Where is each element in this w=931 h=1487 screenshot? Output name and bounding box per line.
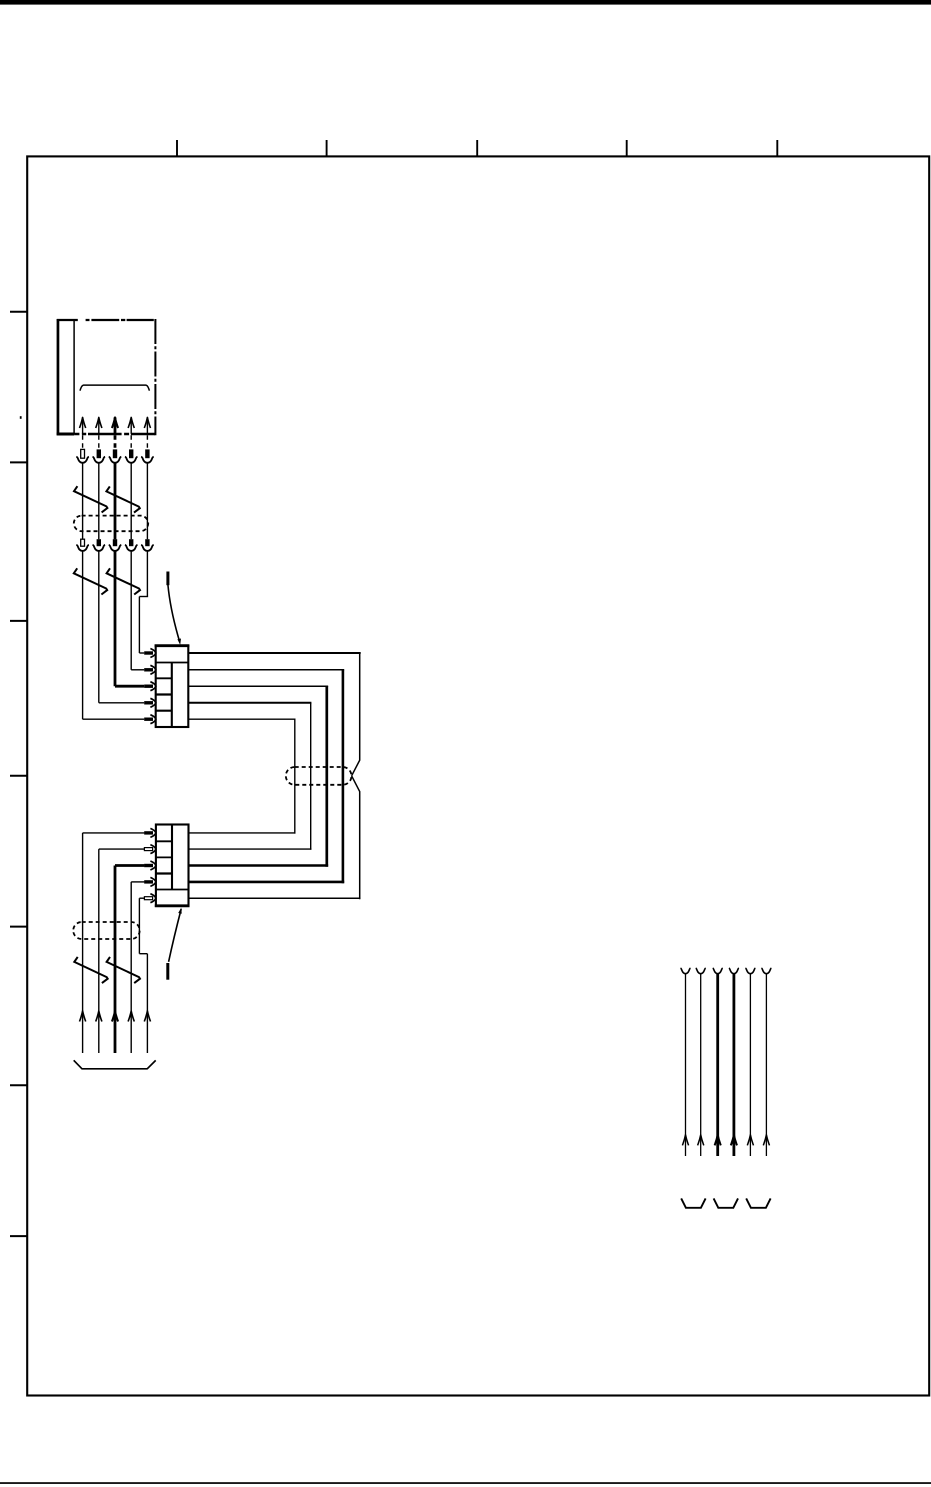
wire 5 into CN-A pin1 bbox=[139, 652, 144, 654]
CN-B pin symbol 5 (hollow) bbox=[144, 897, 152, 900]
twisted-pair symbol row1 (wires 1-2) bbox=[74, 486, 107, 512]
twisted-pair symbol row2 (wires 1-2) bbox=[74, 568, 107, 594]
wire 4 drop bbox=[130, 551, 132, 670]
connector pin bar row1 wire 4 bbox=[129, 449, 133, 458]
loop wire A3 top run bbox=[188, 685, 328, 687]
lead 4 wire bbox=[733, 974, 736, 1156]
loop wire A5 bottom run bbox=[188, 832, 295, 834]
lower harness arrow wire 5 bbox=[144, 1011, 150, 1022]
CN-A pin symbol 4 bbox=[144, 701, 153, 704]
CN-A top edge emphasis bbox=[155, 644, 190, 647]
loop wire A3 bottom run bbox=[188, 864, 328, 867]
loop wire A1 vertical lower bbox=[352, 776, 360, 899]
CN-B vertical divider bbox=[171, 825, 173, 890]
unit box pin arrow 2 bbox=[96, 417, 102, 428]
stray speck bbox=[20, 416, 22, 419]
harness wire 2 dashed lead bbox=[98, 435, 100, 449]
CN-A callout leader tail bbox=[166, 572, 169, 586]
unit box bottom edge dash-dot bbox=[74, 433, 156, 436]
lower harness arrow wire 4 bbox=[128, 1011, 134, 1022]
frame left tick 2 bbox=[10, 461, 27, 463]
CN-A cell divider b bbox=[156, 693, 172, 695]
wire B1 run from CN-B pin1 bbox=[83, 832, 145, 834]
CN-B pin symbol 2 (hollow) bbox=[144, 848, 152, 851]
CN-B callout leader tail bbox=[166, 963, 169, 980]
lower harness arrow wire 1 bbox=[80, 1011, 86, 1022]
wire 1 into CN-A pin5 bbox=[83, 718, 145, 720]
unit box pin stem 1 bbox=[82, 417, 84, 433]
frame left tick 1 bbox=[10, 311, 27, 313]
unit box top edge dash-dot bbox=[57, 319, 157, 321]
CN-A pin symbol 3 bbox=[144, 685, 153, 688]
unit box pin arrow 3 bbox=[112, 417, 118, 428]
lead 2 wire bbox=[700, 974, 702, 1156]
harness wire 3 dashed lead bbox=[114, 435, 117, 449]
lead pair 5-6 terminal tray bbox=[746, 1198, 770, 1207]
frame top tick 2 bbox=[326, 140, 328, 156]
lead 2 arrow bbox=[698, 1135, 704, 1146]
unit box pin arrow 4 bbox=[128, 417, 134, 428]
loop wire A2 vertical bbox=[342, 670, 345, 883]
unit box internal bracket bbox=[80, 385, 149, 391]
lead 1 top cup bbox=[681, 968, 691, 974]
lead 4 top cup bbox=[729, 968, 739, 974]
unit box pin stem 2 bbox=[98, 417, 100, 433]
page footer rule bbox=[0, 1482, 931, 1484]
connector pin bar row1 wire 3 bbox=[113, 449, 117, 458]
wire B2 drop bbox=[98, 849, 100, 1053]
cable clamp band 1 bbox=[74, 516, 148, 532]
CN-A divider under pin1 row bbox=[156, 662, 189, 664]
CN-A pin symbol 5 bbox=[144, 718, 153, 721]
frame top tick 5 bbox=[776, 140, 778, 156]
loop wire A3 vertical bbox=[325, 686, 328, 867]
CN-A cell divider c bbox=[156, 710, 172, 712]
frame top tick 4 bbox=[626, 140, 628, 156]
loop wire A1 top run bbox=[188, 652, 360, 654]
CN-B pin symbol 3 bbox=[144, 864, 153, 867]
connector cup row1 wire 5 bbox=[141, 457, 154, 463]
CN-B cell divider b bbox=[156, 856, 172, 858]
frame top tick 3 bbox=[476, 140, 478, 156]
connector cup row2 wire 1 bbox=[76, 545, 89, 551]
lead 5 wire bbox=[749, 974, 751, 1156]
connector pin bar row2 wire 5 bbox=[145, 539, 149, 546]
loop wire A5 top run bbox=[188, 718, 295, 720]
connector pin bar row1 wire 1 (hollow) bbox=[81, 449, 85, 458]
frame left tick 5 bbox=[10, 926, 27, 928]
harness group bracket (underbrace) bbox=[74, 1060, 156, 1069]
harness wire 5 mid segment bbox=[146, 463, 148, 539]
frame left tick 4 bbox=[10, 775, 27, 777]
harness wire 2 mid segment bbox=[98, 463, 100, 539]
lead 1 arrow bbox=[682, 1135, 688, 1146]
connector pin bar row1 wire 5 bbox=[145, 449, 149, 458]
lead 4 arrow bbox=[731, 1135, 737, 1146]
lead 5 arrow bbox=[747, 1135, 753, 1146]
cable clamp band 3 bbox=[73, 922, 140, 939]
CN-B callout leader line bbox=[169, 909, 182, 962]
harness wire 3 mid segment bbox=[114, 463, 117, 539]
wire B4 drop bbox=[130, 882, 132, 1053]
connector cup row2 wire 3 bbox=[109, 545, 122, 551]
connector cup row2 wire 5 bbox=[141, 545, 154, 551]
wire 5 jog horizontal bbox=[139, 596, 148, 598]
connector CN-A outline bbox=[156, 646, 189, 727]
connector pin bar row2 wire 4 bbox=[129, 539, 133, 546]
wire 4 into CN-A pin2 bbox=[131, 669, 144, 671]
lead 6 arrow bbox=[763, 1135, 769, 1146]
unit box bottom edge solid start bbox=[57, 433, 75, 436]
wire B4 run from CN-B pin4 bbox=[131, 881, 144, 883]
CN-A callout arrowhead bbox=[177, 639, 181, 645]
CN-B cell divider a bbox=[156, 840, 172, 842]
unit box pin arrow 5 bbox=[144, 417, 150, 428]
cable clamp band 2 bbox=[286, 767, 352, 785]
lead 3 arrow bbox=[715, 1135, 721, 1146]
lead pair 1-2 terminal tray bbox=[681, 1198, 705, 1207]
wire 1 drop bbox=[82, 551, 84, 719]
loop wire A4 top run bbox=[188, 702, 311, 704]
lead 1 wire bbox=[685, 974, 687, 1156]
unit box pin stem 4 bbox=[130, 417, 132, 433]
wire B3 drop (thick) bbox=[114, 866, 117, 1054]
unit box right edge dash-dot bbox=[154, 319, 156, 435]
harness wire 1 dashed lead bbox=[82, 435, 84, 449]
wire B2 run from CN-B pin2 bbox=[99, 848, 145, 850]
unit box pin stem 3 bbox=[114, 417, 117, 433]
connector cup row1 wire 3 bbox=[109, 457, 122, 463]
loop wire A5 vertical bbox=[294, 719, 296, 833]
lead 3 top cup bbox=[713, 968, 723, 974]
wire 5 drop to CN-A pin1 bbox=[138, 597, 140, 654]
harness wire 1 mid segment bbox=[82, 463, 84, 539]
CN-B pin symbol 4 bbox=[144, 880, 153, 883]
CN-B bottom edge emphasis bbox=[155, 904, 190, 907]
page header rule (thick top bar) bbox=[0, 0, 931, 5]
loop wire A2 top run bbox=[188, 669, 344, 671]
connector cup row2 wire 2 bbox=[93, 545, 106, 551]
connector pin bar row2 wire 2 bbox=[97, 539, 101, 546]
frame top tick 1 bbox=[176, 140, 178, 156]
lead 6 wire bbox=[765, 974, 767, 1156]
lead 2 top cup bbox=[696, 968, 706, 974]
CN-A callout leader line bbox=[168, 585, 180, 643]
CN-B pin symbol 1 bbox=[144, 831, 153, 834]
unit box pin stem 5 bbox=[146, 417, 148, 433]
connector cup row1 wire 2 bbox=[93, 457, 106, 463]
lead 5 top cup bbox=[745, 968, 755, 974]
loop wire A4 vertical bbox=[310, 703, 312, 850]
loop wire A1 bottom run bbox=[188, 897, 360, 899]
wire B3 run from CN-B pin3 (thick) bbox=[115, 864, 144, 867]
loop wire A2 bottom run bbox=[188, 881, 344, 884]
connector cup row1 wire 1 bbox=[76, 457, 89, 463]
unit box pin arrow 1 bbox=[80, 417, 86, 428]
CN-A pin symbol 1 bbox=[144, 651, 153, 654]
wire 3 into CN-A pin3 bbox=[115, 685, 144, 688]
loop wire A1 vertical upper bbox=[352, 652, 360, 776]
frame left tick 6 bbox=[10, 1084, 27, 1086]
lead pair 3-4 terminal tray bbox=[714, 1198, 738, 1207]
CN-B callout arrowhead bbox=[178, 908, 182, 914]
connector cup row1 wire 4 bbox=[125, 457, 138, 463]
unit box inner vertical line bbox=[73, 320, 75, 434]
lower harness arrow wire 2 bbox=[96, 1011, 102, 1022]
connector cup row2 wire 4 bbox=[125, 545, 138, 551]
wire 5 drop to jog bbox=[146, 551, 148, 597]
twisted-pair symbol row3 (wires 3-4) bbox=[107, 957, 140, 983]
harness wire 4 dashed lead bbox=[130, 435, 132, 449]
CN-B cell divider c bbox=[156, 872, 172, 874]
CN-A cell divider a bbox=[156, 677, 172, 679]
twisted-pair symbol row3 (wires 1-2) bbox=[74, 957, 107, 983]
CN-A vertical divider bbox=[171, 663, 173, 728]
frame left tick 7 bbox=[10, 1235, 27, 1237]
wire B5 drop upper bbox=[138, 898, 140, 954]
wire 2 into CN-A pin4 bbox=[99, 702, 144, 704]
loop wire A4 bottom run bbox=[188, 848, 311, 850]
connector pin bar row2 wire 1 (hollow) bbox=[81, 539, 85, 546]
wire B5 drop lower bbox=[146, 954, 148, 1053]
lead 3 wire bbox=[716, 974, 719, 1156]
twisted-pair symbol row1 (wires 3-4) bbox=[106, 486, 139, 512]
connector pin bar row2 wire 3 bbox=[113, 539, 117, 546]
lead 6 top cup bbox=[761, 968, 771, 974]
wire B5 run from CN-B pin5 bbox=[139, 897, 144, 899]
unit box left edge bbox=[57, 319, 60, 435]
wire 2 drop bbox=[98, 551, 100, 703]
lower harness arrow wire 3 bbox=[112, 1011, 118, 1022]
wire 3 drop (thick) bbox=[114, 551, 117, 686]
wire B5 jog horizontal bbox=[139, 953, 147, 955]
wire B1 drop bbox=[82, 833, 84, 1053]
CN-B divider above pin5 row bbox=[156, 889, 189, 891]
CN-A pin symbol 2 bbox=[144, 668, 153, 671]
harness wire 5 dashed lead bbox=[146, 435, 148, 449]
harness wire 4 mid segment bbox=[130, 463, 132, 539]
connector pin bar row1 wire 2 bbox=[97, 449, 101, 458]
connector CN-B outline bbox=[156, 825, 189, 906]
twisted-pair symbol row2 (wires 3-4) bbox=[107, 568, 140, 594]
frame left tick 3 bbox=[10, 620, 27, 622]
